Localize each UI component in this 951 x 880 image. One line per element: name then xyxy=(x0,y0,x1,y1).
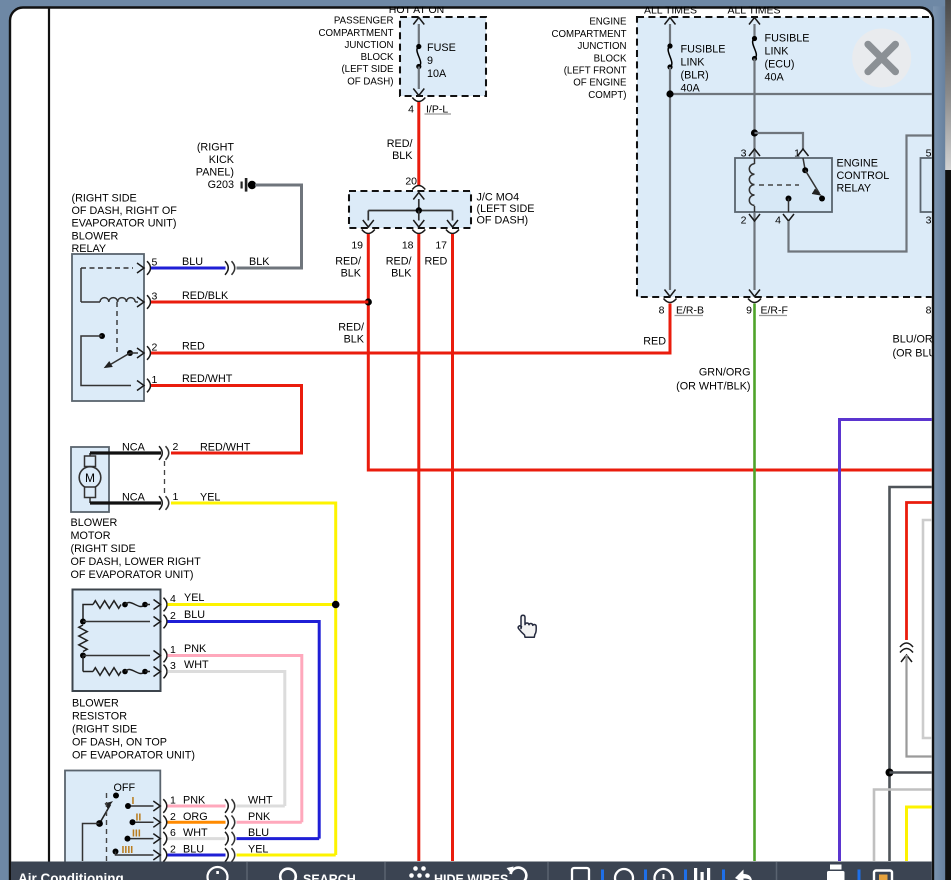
relay pins 5 3 2 1 xyxy=(137,257,158,393)
svg-text:RED/BLK: RED/BLK xyxy=(182,290,229,302)
svg-text:2: 2 xyxy=(173,441,179,453)
wire YEL motor pin1 xyxy=(171,503,336,855)
svg-text:3: 3 xyxy=(741,148,747,160)
svg-text:II: II xyxy=(136,811,142,823)
wire BLK from G203 xyxy=(255,185,302,267)
svg-text:JUNCTION: JUNCTION xyxy=(578,41,627,52)
svg-text:LINK: LINK xyxy=(681,57,706,69)
ECR coil and contacts xyxy=(749,158,825,212)
switch position III xyxy=(125,828,154,842)
svg-text:RESISTOR: RESISTOR xyxy=(72,711,127,723)
svg-text:BLU: BLU xyxy=(184,609,205,621)
svg-text:FUSE: FUSE xyxy=(427,42,456,54)
switch wires row2 ORG->PNK xyxy=(168,821,226,824)
switch mechanism xyxy=(83,782,136,861)
svg-text:BLOWER: BLOWER xyxy=(72,698,119,710)
svg-text:19: 19 xyxy=(351,240,363,252)
svg-text:OFF: OFF xyxy=(114,782,136,794)
resistor elements xyxy=(79,601,150,676)
ECR pin arrows 3 1 2 4 xyxy=(741,148,809,227)
svg-text:(RIGHT SIDE: (RIGHT SIDE xyxy=(72,193,137,205)
switch position I xyxy=(125,795,154,809)
svg-text:E/R-F: E/R-F xyxy=(761,305,788,317)
svg-text:PNK: PNK xyxy=(248,811,271,823)
engine compartment junction block (dashed) xyxy=(637,17,947,297)
svg-text:YEL: YEL xyxy=(248,844,268,856)
svg-text:BLK: BLK xyxy=(392,150,413,162)
wire yellow bottom right xyxy=(907,807,935,861)
svg-text:20: 20 xyxy=(405,176,417,188)
motor symbol xyxy=(79,453,101,503)
svg-text:BLOWER: BLOWER xyxy=(72,230,119,242)
svg-text:BLK: BLK xyxy=(341,267,362,279)
wire light gray U loop xyxy=(923,520,934,738)
wire red right with connector xyxy=(907,503,935,641)
svg-text:RED: RED xyxy=(643,336,666,348)
svg-text:5: 5 xyxy=(926,148,932,160)
bottom toolbar xyxy=(11,862,934,880)
second relay box (clipped) xyxy=(921,158,951,212)
svg-text:10A: 10A xyxy=(427,68,447,80)
wire light gray lower xyxy=(874,790,934,862)
svg-text:NCA: NCA xyxy=(122,492,146,504)
J/C MO4 label xyxy=(477,192,535,227)
switch wires row3 WHT->BLU xyxy=(168,837,226,840)
svg-text:RELAY: RELAY xyxy=(72,243,107,255)
svg-text:RED: RED xyxy=(425,255,448,267)
svg-text:GRN/ORG: GRN/ORG xyxy=(699,367,751,379)
svg-text:RELAY: RELAY xyxy=(837,182,872,194)
svg-text:(LEFT SIDE: (LEFT SIDE xyxy=(477,203,535,215)
svg-text:PANEL): PANEL) xyxy=(196,167,234,179)
svg-text:RED/WHT: RED/WHT xyxy=(182,373,233,385)
wire BLU pin2 xyxy=(168,622,320,839)
svg-text:RED/: RED/ xyxy=(338,322,364,334)
switch wires row1 PNK->WHT xyxy=(168,805,226,808)
svg-text:RED/: RED/ xyxy=(335,255,361,267)
relay coil + contacts xyxy=(81,268,138,386)
svg-text:18: 18 xyxy=(402,240,414,252)
svg-text:(RIGHT SIDE: (RIGHT SIDE xyxy=(72,724,137,736)
diagram frame line xyxy=(48,8,50,862)
pins 19 18 17 connectors xyxy=(351,230,459,252)
svg-text:JUNCTION: JUNCTION xyxy=(345,40,394,51)
svg-text:17: 17 xyxy=(435,240,447,252)
blower switch box xyxy=(65,771,160,866)
motor NCA wires xyxy=(90,451,161,454)
wire 17 RED vertical xyxy=(451,234,454,861)
svg-text:G203: G203 xyxy=(208,179,234,191)
fusible link ECU xyxy=(749,18,810,291)
svg-text:BLU: BLU xyxy=(248,827,269,839)
blower motor label xyxy=(71,517,202,581)
mouse cursor xyxy=(518,615,536,637)
svg-text:WHT: WHT xyxy=(248,795,273,807)
svg-text:RED/: RED/ xyxy=(386,255,412,267)
svg-text:8: 8 xyxy=(659,305,665,317)
svg-text:BLOCK: BLOCK xyxy=(361,52,394,63)
switch pins xyxy=(153,795,176,862)
svg-text:(RIGHT SIDE: (RIGHT SIDE xyxy=(71,543,136,555)
svg-text:BLK: BLK xyxy=(249,256,270,268)
blower motor box xyxy=(71,447,109,512)
svg-text:III: III xyxy=(132,828,141,840)
svg-text:I: I xyxy=(132,795,135,807)
svg-text:COMPT): COMPT) xyxy=(588,90,626,101)
wire RED/BLK fuse to J/C MO4 xyxy=(417,102,420,186)
wire RED/BLK pin3 xyxy=(151,301,368,304)
svg-text:(RIGHT: (RIGHT xyxy=(197,142,235,154)
svg-text:BLU: BLU xyxy=(182,256,203,268)
svg-text:2: 2 xyxy=(741,215,747,227)
svg-text:COMPARTMENT: COMPARTMENT xyxy=(319,28,394,39)
fusible link BLR xyxy=(665,18,726,291)
svg-text:OF EVAPORATOR UNIT): OF EVAPORATOR UNIT) xyxy=(72,750,195,762)
J/C MO4 junction (dashed) xyxy=(349,191,471,228)
blower relay box xyxy=(72,254,144,401)
wire BLU pin5 xyxy=(151,267,226,270)
svg-text:YEL: YEL xyxy=(200,492,220,504)
svg-text:40A: 40A xyxy=(765,72,785,84)
blower relay label xyxy=(72,193,178,255)
wire WHT pin3 xyxy=(168,672,285,807)
pin 4 connector I/P-L xyxy=(408,98,451,116)
svg-text:NCA: NCA xyxy=(122,442,146,454)
svg-text:BLOWER: BLOWER xyxy=(71,517,118,529)
svg-text:FUSIBLE: FUSIBLE xyxy=(765,33,810,45)
svg-text:BLK: BLK xyxy=(391,267,412,279)
wire PNK pin1 xyxy=(168,656,302,823)
svg-text:4: 4 xyxy=(408,104,414,116)
svg-text:(LEFT SIDE: (LEFT SIDE xyxy=(341,64,394,75)
inline connector BLU/BLK xyxy=(225,261,228,275)
branch to relay pin 1 xyxy=(751,129,758,136)
svg-text:RED: RED xyxy=(182,341,205,353)
switch wires row4 BLU->YEL xyxy=(168,854,226,857)
svg-text:ENGINE: ENGINE xyxy=(837,157,878,169)
wire dark gray right loop xyxy=(890,487,935,861)
wire BLU/ORG purple xyxy=(840,420,935,862)
wire GRN/ORG E/R-F down xyxy=(753,304,756,862)
svg-text:M: M xyxy=(85,471,95,485)
wire pin4 loop to right relay xyxy=(789,136,935,252)
svg-text:WHT: WHT xyxy=(184,659,209,671)
svg-text:40A: 40A xyxy=(681,83,701,95)
svg-text:OF DASH, LOWER RIGHT: OF DASH, LOWER RIGHT xyxy=(71,556,202,568)
svg-text:MOTOR: MOTOR xyxy=(71,530,111,542)
resistor pins 4 2 1 3 xyxy=(154,593,177,678)
ECJB bottom pin 9 E/R-F xyxy=(746,290,788,317)
svg-text:9: 9 xyxy=(427,55,433,67)
svg-text:IIII: IIII xyxy=(122,844,134,856)
svg-text:4: 4 xyxy=(775,215,781,227)
wire gray continuation xyxy=(907,655,935,757)
svg-text:EVAPORATOR UNIT): EVAPORATOR UNIT) xyxy=(72,218,177,230)
svg-text:Air Conditioning: Air Conditioning xyxy=(18,871,124,880)
svg-text:ENGINE: ENGINE xyxy=(589,17,627,28)
passenger compartment junction block (dashed) xyxy=(400,17,486,96)
switch position IIII xyxy=(113,844,154,856)
blower resistor label xyxy=(72,698,195,762)
wire BLK xyxy=(237,267,304,270)
svg-text:PNK: PNK xyxy=(183,795,206,807)
engine compartment junction block label xyxy=(552,17,628,101)
wire YEL pin4 to junction xyxy=(168,603,336,606)
svg-text:OF EVAPORATOR UNIT): OF EVAPORATOR UNIT) xyxy=(71,569,194,581)
wire labels under J/C xyxy=(335,255,447,279)
svg-text:3: 3 xyxy=(926,215,932,227)
wire RED/WHT to relay pin1 xyxy=(171,452,303,455)
svg-text:(BLR): (BLR) xyxy=(681,70,709,82)
svg-text:COMPARTMENT: COMPARTMENT xyxy=(552,29,627,40)
svg-text:PNK: PNK xyxy=(184,643,207,655)
svg-text:WHT: WHT xyxy=(183,827,208,839)
svg-text:(ECU): (ECU) xyxy=(765,59,795,71)
svg-text:LINK: LINK xyxy=(765,46,790,58)
wire RED pin2 to E/R-B xyxy=(151,352,672,355)
svg-text:E/R-B: E/R-B xyxy=(676,305,704,317)
svg-text:OF ENGINE: OF ENGINE xyxy=(573,78,627,89)
svg-text:9: 9 xyxy=(746,305,752,317)
svg-text:RED/: RED/ xyxy=(387,138,413,150)
fuse 9 10A xyxy=(413,18,455,96)
bus wire from BLR link xyxy=(670,93,934,95)
wire 19 RED/BLK vertical + to right edge xyxy=(368,234,934,470)
motor connectors xyxy=(159,441,179,510)
svg-text:OF DASH): OF DASH) xyxy=(347,76,393,87)
wire RED/WHT pin1 xyxy=(151,386,302,454)
wire 18 RED/BLK vertical xyxy=(417,234,420,861)
top chrome strip xyxy=(0,0,951,6)
scrollbar xyxy=(945,0,951,170)
svg-text:(LEFT FRONT: (LEFT FRONT xyxy=(564,66,627,77)
svg-text:BLU: BLU xyxy=(183,844,204,856)
svg-text:OF DASH, RIGHT OF: OF DASH, RIGHT OF xyxy=(72,205,178,217)
svg-text:SEARCH: SEARCH xyxy=(303,873,356,880)
svg-text:BLOCK: BLOCK xyxy=(594,53,627,64)
svg-text:HIDE WIRES: HIDE WIRES xyxy=(434,873,508,880)
svg-text:(OR WHT/BLK): (OR WHT/BLK) xyxy=(676,381,750,393)
svg-text:FUSIBLE: FUSIBLE xyxy=(681,44,726,56)
svg-text:1: 1 xyxy=(794,148,800,160)
svg-text:1: 1 xyxy=(173,491,179,503)
svg-text:J/C MO4: J/C MO4 xyxy=(477,192,520,204)
engine control relay box xyxy=(735,158,832,212)
ECJB bottom pin 8 E/R-B xyxy=(659,290,704,317)
close button xyxy=(852,29,911,88)
wire RED E/R-B down to relay feed xyxy=(669,304,672,355)
svg-text:CONTROL: CONTROL xyxy=(837,170,890,182)
svg-text:YEL: YEL xyxy=(184,592,204,604)
svg-text:ORG: ORG xyxy=(183,811,208,823)
pin 20 connector xyxy=(405,176,425,190)
svg-text:KICK: KICK xyxy=(209,154,235,166)
ground G203 xyxy=(196,142,256,192)
toolbar blue separators xyxy=(601,870,861,880)
passenger compartment junction block label xyxy=(319,16,395,88)
svg-text:BLK: BLK xyxy=(344,334,365,346)
svg-text:OF DASH, ON TOP: OF DASH, ON TOP xyxy=(72,737,167,749)
svg-text:8: 8 xyxy=(926,305,932,317)
svg-text:OF DASH): OF DASH) xyxy=(477,215,529,227)
ENGINE CONTROL RELAY label xyxy=(837,157,890,194)
blower resistor box xyxy=(73,590,161,692)
svg-text:PASSENGER: PASSENGER xyxy=(334,16,394,27)
switch position II xyxy=(130,811,154,825)
svg-text:RED/WHT: RED/WHT xyxy=(200,442,251,454)
